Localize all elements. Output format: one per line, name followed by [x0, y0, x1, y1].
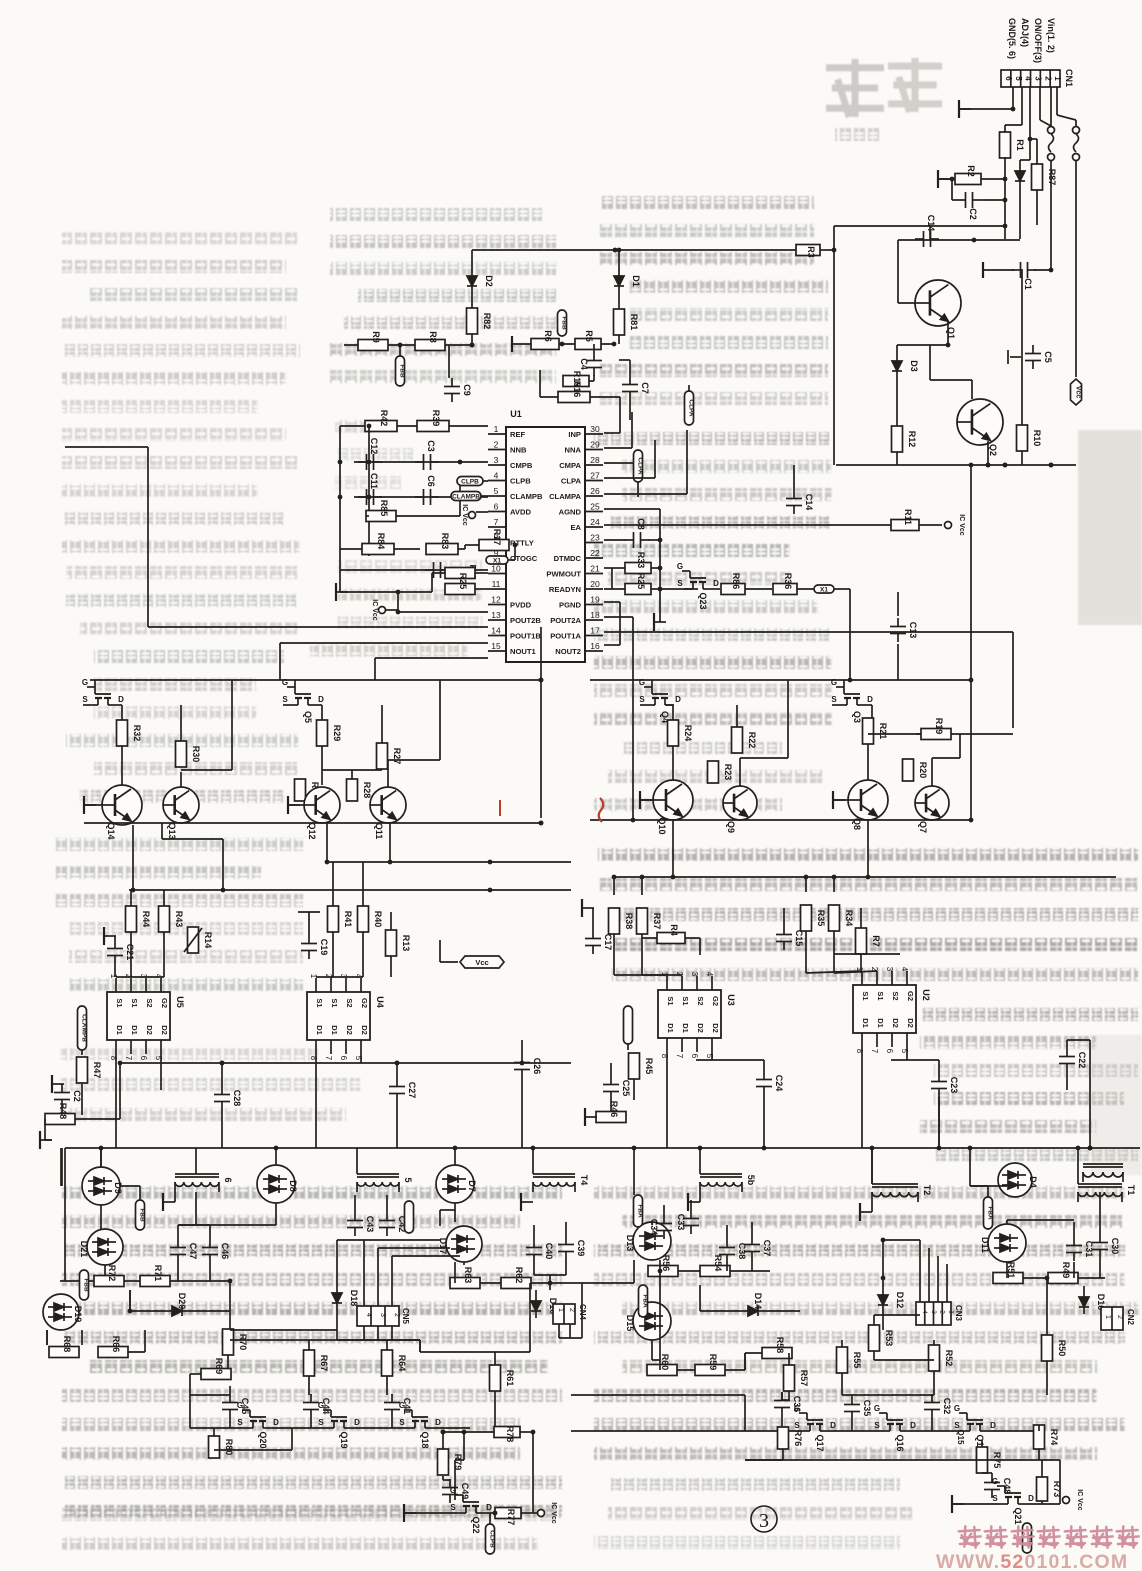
svg-text:22: 22	[590, 548, 600, 558]
svg-text:POUT2A: POUT2A	[550, 616, 581, 625]
svg-text:R83: R83	[440, 533, 450, 550]
svg-text:23: 23	[590, 533, 600, 543]
svg-text:D3: D3	[909, 360, 919, 372]
svg-text:R76: R76	[793, 1430, 803, 1447]
svg-text:D1: D1	[315, 1025, 324, 1035]
svg-text:R60: R60	[660, 1354, 670, 1371]
svg-text:27: 27	[590, 471, 600, 481]
svg-text:INP: INP	[568, 430, 581, 439]
svg-text:R87: R87	[1047, 169, 1057, 186]
svg-text:R8: R8	[428, 331, 438, 343]
svg-text:NOUT1: NOUT1	[510, 647, 537, 656]
svg-text:R57: R57	[799, 1370, 809, 1387]
svg-text:R84: R84	[376, 533, 386, 550]
svg-text:13: 13	[491, 610, 501, 620]
svg-text:C3: C3	[426, 440, 436, 452]
svg-text:R52: R52	[944, 1350, 954, 1367]
svg-text:R80: R80	[224, 1439, 234, 1456]
svg-text:CMPB: CMPB	[510, 461, 533, 470]
svg-text:5: 5	[1014, 76, 1023, 81]
svg-text:S: S	[450, 1503, 456, 1512]
svg-text:C24: C24	[774, 1075, 784, 1092]
svg-text:C33: C33	[676, 1214, 686, 1231]
svg-text:6: 6	[885, 1049, 894, 1054]
svg-text:C9: C9	[462, 384, 472, 396]
svg-text:CLAMPA: CLAMPA	[549, 492, 581, 501]
svg-text:S: S	[399, 1418, 405, 1427]
svg-text:3: 3	[690, 972, 699, 977]
svg-text:D1: D1	[631, 275, 641, 287]
svg-text:R71: R71	[153, 1265, 163, 1282]
svg-text:CLAMPB: CLAMPB	[81, 1014, 88, 1042]
svg-text:1: 1	[1104, 1315, 1111, 1319]
svg-text:G2: G2	[711, 996, 720, 1006]
svg-text:6: 6	[223, 1177, 233, 1182]
svg-text:3: 3	[885, 967, 894, 972]
svg-text:D2: D2	[711, 1023, 720, 1033]
svg-text:CLPA: CLPA	[688, 399, 695, 417]
svg-text:R29: R29	[332, 725, 342, 742]
svg-text:S: S	[677, 579, 683, 588]
svg-text:R25: R25	[636, 573, 646, 590]
svg-text:D1: D1	[666, 1023, 675, 1033]
svg-text:D: D	[435, 1418, 441, 1427]
svg-text:C14: C14	[926, 215, 936, 232]
svg-text:C13: C13	[908, 622, 918, 639]
svg-text:D20: D20	[177, 1293, 187, 1310]
svg-text:R3: R3	[806, 246, 816, 258]
svg-text:S2: S2	[696, 996, 705, 1005]
svg-text:D: D	[713, 579, 719, 588]
svg-text:C37: C37	[762, 1240, 772, 1257]
svg-text:Q23: Q23	[698, 592, 708, 609]
svg-text:R32: R32	[132, 725, 142, 742]
svg-text:CN2: CN2	[1126, 1309, 1135, 1326]
svg-text:R59: R59	[708, 1354, 718, 1371]
svg-text:R49: R49	[1061, 1262, 1071, 1279]
svg-text:Vcc: Vcc	[1075, 386, 1082, 399]
svg-text:5b: 5b	[746, 1175, 756, 1186]
svg-text:READYN: READYN	[549, 585, 581, 594]
svg-text:IC Vcc: IC Vcc	[1076, 1489, 1083, 1511]
svg-text:D2: D2	[345, 1025, 354, 1035]
svg-text:R55: R55	[852, 1352, 862, 1369]
svg-text:5: 5	[494, 486, 499, 496]
svg-text:C26: C26	[532, 1058, 542, 1075]
svg-text:G: G	[831, 678, 837, 687]
svg-text:R44: R44	[141, 911, 151, 928]
svg-text:G: G	[639, 678, 645, 687]
svg-text:D2: D2	[160, 1025, 169, 1035]
svg-text:FBB: FBB	[83, 1278, 90, 1292]
svg-text:R1: R1	[1015, 139, 1025, 151]
svg-text:3: 3	[759, 1510, 769, 1532]
svg-text:D2: D2	[891, 1018, 900, 1028]
svg-text:R74: R74	[1049, 1429, 1059, 1446]
svg-text:G: G	[399, 1401, 405, 1410]
svg-text:S2: S2	[145, 998, 154, 1007]
svg-text:G2: G2	[160, 998, 169, 1008]
svg-text:IC Vcc: IC Vcc	[550, 1502, 557, 1524]
svg-text:S: S	[639, 695, 645, 704]
svg-text:2: 2	[393, 1313, 400, 1317]
svg-text:3: 3	[1034, 76, 1043, 81]
svg-text:D11: D11	[980, 1237, 990, 1253]
svg-text:G: G	[992, 1477, 998, 1486]
svg-text:R5: R5	[584, 330, 594, 342]
svg-text:R10: R10	[1032, 430, 1042, 447]
svg-text:R45: R45	[644, 1058, 654, 1075]
svg-text:4: 4	[365, 1313, 372, 1317]
svg-text:C27: C27	[407, 1082, 417, 1099]
svg-text:6: 6	[494, 502, 499, 512]
svg-text:6: 6	[339, 1056, 348, 1061]
svg-text:R6: R6	[543, 330, 553, 342]
svg-text:R11: R11	[903, 509, 913, 525]
svg-text:R42: R42	[379, 410, 389, 427]
svg-text:24: 24	[590, 517, 600, 527]
svg-text:17: 17	[590, 626, 600, 636]
svg-text:18: 18	[590, 610, 600, 620]
svg-text:C14: C14	[804, 494, 814, 511]
svg-text:D: D	[910, 1421, 916, 1430]
svg-text:Vin(1. 2): Vin(1. 2)	[1046, 18, 1056, 53]
svg-text:DTMDC: DTMDC	[554, 554, 582, 563]
svg-text:G: G	[954, 1404, 960, 1413]
svg-text:R50: R50	[1057, 1340, 1067, 1357]
svg-text:S1: S1	[666, 996, 675, 1005]
svg-text:NNB: NNB	[510, 446, 527, 455]
svg-text:D: D	[354, 1418, 360, 1427]
svg-text:IC Vcc: IC Vcc	[371, 599, 378, 621]
svg-text:R9: R9	[371, 331, 381, 343]
svg-text:R16: R16	[572, 381, 582, 398]
svg-text:C32: C32	[942, 1398, 952, 1415]
svg-text:7: 7	[124, 1056, 133, 1061]
svg-text:R38: R38	[624, 913, 634, 930]
svg-text:S1: S1	[130, 998, 139, 1007]
svg-text:1: 1	[557, 1308, 564, 1312]
svg-text:D1: D1	[115, 1025, 124, 1035]
svg-text:R63: R63	[463, 1267, 473, 1284]
svg-text:D1: D1	[130, 1025, 139, 1035]
svg-text:D2: D2	[484, 275, 494, 287]
svg-text:R7: R7	[871, 935, 881, 947]
svg-text:C30: C30	[1110, 1238, 1120, 1255]
svg-text:R2: R2	[966, 165, 976, 177]
svg-text:D: D	[990, 1421, 996, 1430]
svg-text:R19: R19	[934, 718, 944, 735]
svg-text:CLPB: CLPB	[510, 477, 531, 486]
svg-text:S: S	[992, 1494, 998, 1503]
svg-text:CMPA: CMPA	[559, 461, 581, 470]
svg-text:D: D	[867, 695, 873, 704]
svg-text:R62: R62	[514, 1267, 524, 1284]
svg-text:R13: R13	[401, 935, 411, 952]
svg-text:2: 2	[1116, 1315, 1123, 1319]
svg-text:CLPA: CLPA	[561, 477, 582, 486]
svg-text:R46: R46	[609, 1101, 619, 1118]
svg-text:11: 11	[492, 579, 501, 589]
svg-text:U1: U1	[510, 409, 522, 419]
svg-text:G: G	[237, 1401, 243, 1410]
svg-text:R81: R81	[629, 314, 639, 331]
svg-text:U3: U3	[726, 994, 736, 1006]
svg-text:19: 19	[590, 595, 600, 605]
svg-text:D15: D15	[625, 1315, 635, 1332]
svg-text:C11: C11	[369, 473, 379, 489]
svg-text:R68: R68	[62, 1336, 72, 1353]
svg-text:R25: R25	[458, 573, 468, 590]
svg-text:C46: C46	[220, 1243, 230, 1260]
svg-text:FBA: FBA	[987, 1206, 994, 1220]
svg-text:T4: T4	[579, 1175, 589, 1186]
svg-text:CLAMPB: CLAMPB	[452, 494, 480, 501]
svg-text:10: 10	[491, 564, 501, 574]
svg-text:7: 7	[324, 1056, 333, 1061]
svg-text:R82: R82	[482, 313, 492, 330]
svg-text:R53: R53	[884, 1330, 894, 1347]
svg-text:U4: U4	[375, 996, 385, 1008]
svg-text:R77: R77	[506, 1509, 516, 1526]
svg-text:D19: D19	[73, 1306, 83, 1323]
svg-text:ON/OFF(3): ON/OFF(3)	[1033, 18, 1043, 63]
svg-text:Q15: Q15	[956, 1429, 965, 1445]
svg-text:R86: R86	[731, 573, 741, 590]
svg-text:Q16: Q16	[895, 1434, 905, 1451]
svg-text:PGND: PGND	[559, 601, 581, 610]
svg-text:D: D	[830, 1421, 836, 1430]
svg-text:C25: C25	[621, 1080, 631, 1097]
svg-text:C22: C22	[1077, 1052, 1087, 1069]
svg-text:D4: D4	[1028, 1176, 1038, 1188]
svg-text:C23: C23	[949, 1077, 959, 1094]
svg-text:28: 28	[590, 455, 600, 465]
svg-text:26: 26	[590, 486, 600, 496]
svg-text:C43: C43	[365, 1216, 375, 1233]
svg-text:14: 14	[491, 626, 501, 636]
svg-text:D1: D1	[861, 1018, 870, 1028]
svg-text:6: 6	[139, 1056, 148, 1061]
svg-text:POUT1A: POUT1A	[550, 632, 581, 641]
svg-text:16: 16	[590, 641, 600, 651]
svg-text:C49: C49	[460, 1483, 470, 1500]
svg-text:Q17: Q17	[815, 1434, 825, 1451]
svg-text:C47: C47	[188, 1243, 198, 1260]
svg-text:3: 3	[379, 1313, 386, 1317]
svg-text:D: D	[318, 695, 324, 704]
svg-text:25: 25	[590, 502, 600, 512]
svg-text:C28: C28	[232, 1090, 242, 1107]
svg-text:G: G	[318, 1401, 324, 1410]
svg-text:R85: R85	[379, 500, 389, 517]
svg-text:G: G	[450, 1486, 456, 1495]
svg-text:R66: R66	[111, 1336, 121, 1353]
svg-text:R58: R58	[775, 1337, 785, 1354]
svg-text:IC Vcc: IC Vcc	[461, 504, 468, 526]
svg-text:D1: D1	[876, 1018, 885, 1028]
svg-text:4: 4	[494, 471, 499, 481]
svg-text:20: 20	[590, 579, 600, 589]
svg-text:CLAMPB: CLAMPB	[510, 492, 543, 501]
svg-text:1: 1	[494, 424, 499, 434]
svg-text:S: S	[282, 695, 288, 704]
svg-text:21: 21	[590, 564, 600, 574]
svg-text:R27: R27	[392, 748, 402, 765]
svg-text:R43: R43	[174, 911, 184, 928]
svg-text:X1: X1	[493, 558, 501, 565]
svg-text:R35: R35	[816, 910, 826, 927]
svg-text:2: 2	[1043, 76, 1052, 81]
svg-text:D2: D2	[145, 1025, 154, 1035]
svg-text:6: 6	[1004, 76, 1013, 81]
svg-text:R22: R22	[747, 732, 757, 749]
svg-text:R56: R56	[661, 1255, 671, 1272]
svg-text:Q5: Q5	[303, 711, 313, 723]
svg-text:R72: R72	[107, 1265, 117, 1282]
svg-text:GND(5. 6): GND(5. 6)	[1007, 18, 1017, 59]
svg-text:15: 15	[491, 641, 501, 651]
svg-text:T2: T2	[922, 1185, 932, 1196]
svg-text:POUT1B: POUT1B	[510, 632, 541, 641]
svg-text:D8: D8	[288, 1180, 298, 1192]
svg-text:R39: R39	[431, 410, 441, 427]
svg-text:S1: S1	[681, 996, 690, 1005]
svg-text:REF: REF	[510, 430, 526, 439]
svg-text:R20: R20	[918, 762, 928, 779]
svg-text:D: D	[118, 695, 124, 704]
svg-text:D1: D1	[681, 1023, 690, 1033]
svg-text:D7: D7	[467, 1180, 477, 1192]
svg-text:CN3: CN3	[954, 1305, 963, 1322]
svg-text:C40: C40	[544, 1243, 554, 1260]
svg-text:C8: C8	[636, 518, 646, 530]
svg-text:29: 29	[590, 440, 600, 450]
svg-text:G2: G2	[906, 991, 915, 1001]
svg-text:Vcc: Vcc	[475, 958, 488, 967]
svg-text:G: G	[677, 562, 683, 571]
svg-text:R61: R61	[505, 1370, 515, 1387]
svg-text:4: 4	[1024, 76, 1033, 81]
svg-text:1: 1	[947, 1310, 954, 1314]
svg-text:D9: D9	[113, 1182, 123, 1194]
svg-text:C35: C35	[862, 1400, 872, 1417]
svg-text:R4: R4	[669, 924, 679, 936]
svg-text:Q13: Q13	[167, 822, 177, 839]
svg-text:R21: R21	[878, 723, 888, 740]
svg-text:CLPB: CLPB	[461, 479, 479, 486]
svg-text:D13: D13	[625, 1235, 635, 1252]
svg-text:FBA: FBA	[642, 1294, 649, 1308]
svg-text:R78: R78	[505, 1426, 515, 1443]
svg-text:G: G	[282, 678, 288, 687]
svg-text:5: 5	[403, 1177, 413, 1182]
svg-text:S: S	[831, 695, 837, 704]
svg-text:Q3: Q3	[852, 711, 862, 723]
svg-text:FBB: FBB	[561, 316, 568, 330]
svg-text:FBA: FBA	[637, 1204, 644, 1218]
svg-text:D18: D18	[349, 1290, 359, 1307]
svg-text:7: 7	[870, 1049, 879, 1054]
svg-text:C2: C2	[968, 208, 978, 220]
svg-text:D21: D21	[79, 1241, 89, 1258]
svg-text:3: 3	[494, 455, 499, 465]
svg-text:CLPA: CLPA	[637, 457, 644, 475]
svg-text:FBB: FBB	[399, 364, 406, 378]
svg-text:CLPB: CLPB	[489, 1530, 496, 1548]
svg-text:R17: R17	[492, 529, 502, 546]
svg-text:D: D	[273, 1418, 279, 1427]
svg-text:4: 4	[921, 1310, 928, 1314]
svg-text:Q20: Q20	[258, 1431, 268, 1448]
svg-text:S1: S1	[115, 998, 124, 1007]
svg-text:Q14: Q14	[106, 822, 116, 839]
svg-text:C4: C4	[579, 358, 589, 370]
svg-text:R14: R14	[203, 932, 213, 949]
svg-text:R36: R36	[783, 573, 793, 590]
svg-text:Q2: Q2	[988, 444, 998, 456]
svg-text:R28: R28	[362, 782, 372, 799]
svg-text:R12: R12	[907, 431, 917, 448]
svg-text:3: 3	[930, 1310, 937, 1314]
svg-text:C12: C12	[369, 438, 379, 455]
svg-text:R47: R47	[92, 1062, 102, 1079]
svg-text:CN5: CN5	[401, 1308, 410, 1325]
svg-text:2: 2	[494, 440, 499, 450]
svg-text:S1: S1	[330, 998, 339, 1007]
svg-text:U5: U5	[175, 996, 185, 1008]
svg-text:R40: R40	[373, 911, 383, 928]
svg-text:12: 12	[491, 595, 501, 605]
svg-text:C34: C34	[649, 1219, 659, 1236]
svg-text:G: G	[82, 678, 88, 687]
svg-text:Q9: Q9	[726, 821, 736, 833]
svg-text:7: 7	[494, 517, 499, 527]
svg-text:C19: C19	[319, 939, 329, 956]
svg-text:4: 4	[705, 972, 714, 977]
svg-text:S2: S2	[891, 991, 900, 1000]
svg-text:C1: C1	[1023, 278, 1033, 290]
svg-text:D2: D2	[360, 1025, 369, 1035]
svg-text:7: 7	[675, 1054, 684, 1059]
svg-text:S1: S1	[876, 991, 885, 1000]
svg-text:D14: D14	[753, 1293, 763, 1310]
svg-text:R69: R69	[214, 1358, 224, 1375]
svg-text:R79: R79	[453, 1454, 463, 1471]
svg-text:PWMOUT: PWMOUT	[546, 570, 581, 579]
svg-text:S: S	[794, 1421, 800, 1430]
svg-text:EA: EA	[570, 523, 581, 532]
svg-text:R48: R48	[58, 1103, 68, 1120]
svg-text:R37: R37	[652, 913, 662, 930]
svg-text:D: D	[675, 695, 681, 704]
svg-text:C21: C21	[125, 944, 135, 961]
svg-text:G: G	[794, 1404, 800, 1413]
svg-text:30: 30	[590, 424, 600, 434]
svg-text:C5: C5	[1043, 351, 1053, 363]
svg-text:R30: R30	[191, 746, 201, 763]
svg-text:Q7: Q7	[918, 821, 928, 833]
svg-text:R54: R54	[713, 1255, 723, 1272]
svg-text:PVDD: PVDD	[510, 601, 532, 610]
svg-text:C7: C7	[640, 382, 650, 394]
svg-text:D1: D1	[330, 1025, 339, 1035]
svg-text:C17: C17	[603, 934, 613, 951]
svg-text:S2: S2	[345, 998, 354, 1007]
svg-text:G2: G2	[360, 998, 369, 1008]
svg-text:D12: D12	[895, 1292, 905, 1309]
svg-text:D2: D2	[696, 1023, 705, 1033]
